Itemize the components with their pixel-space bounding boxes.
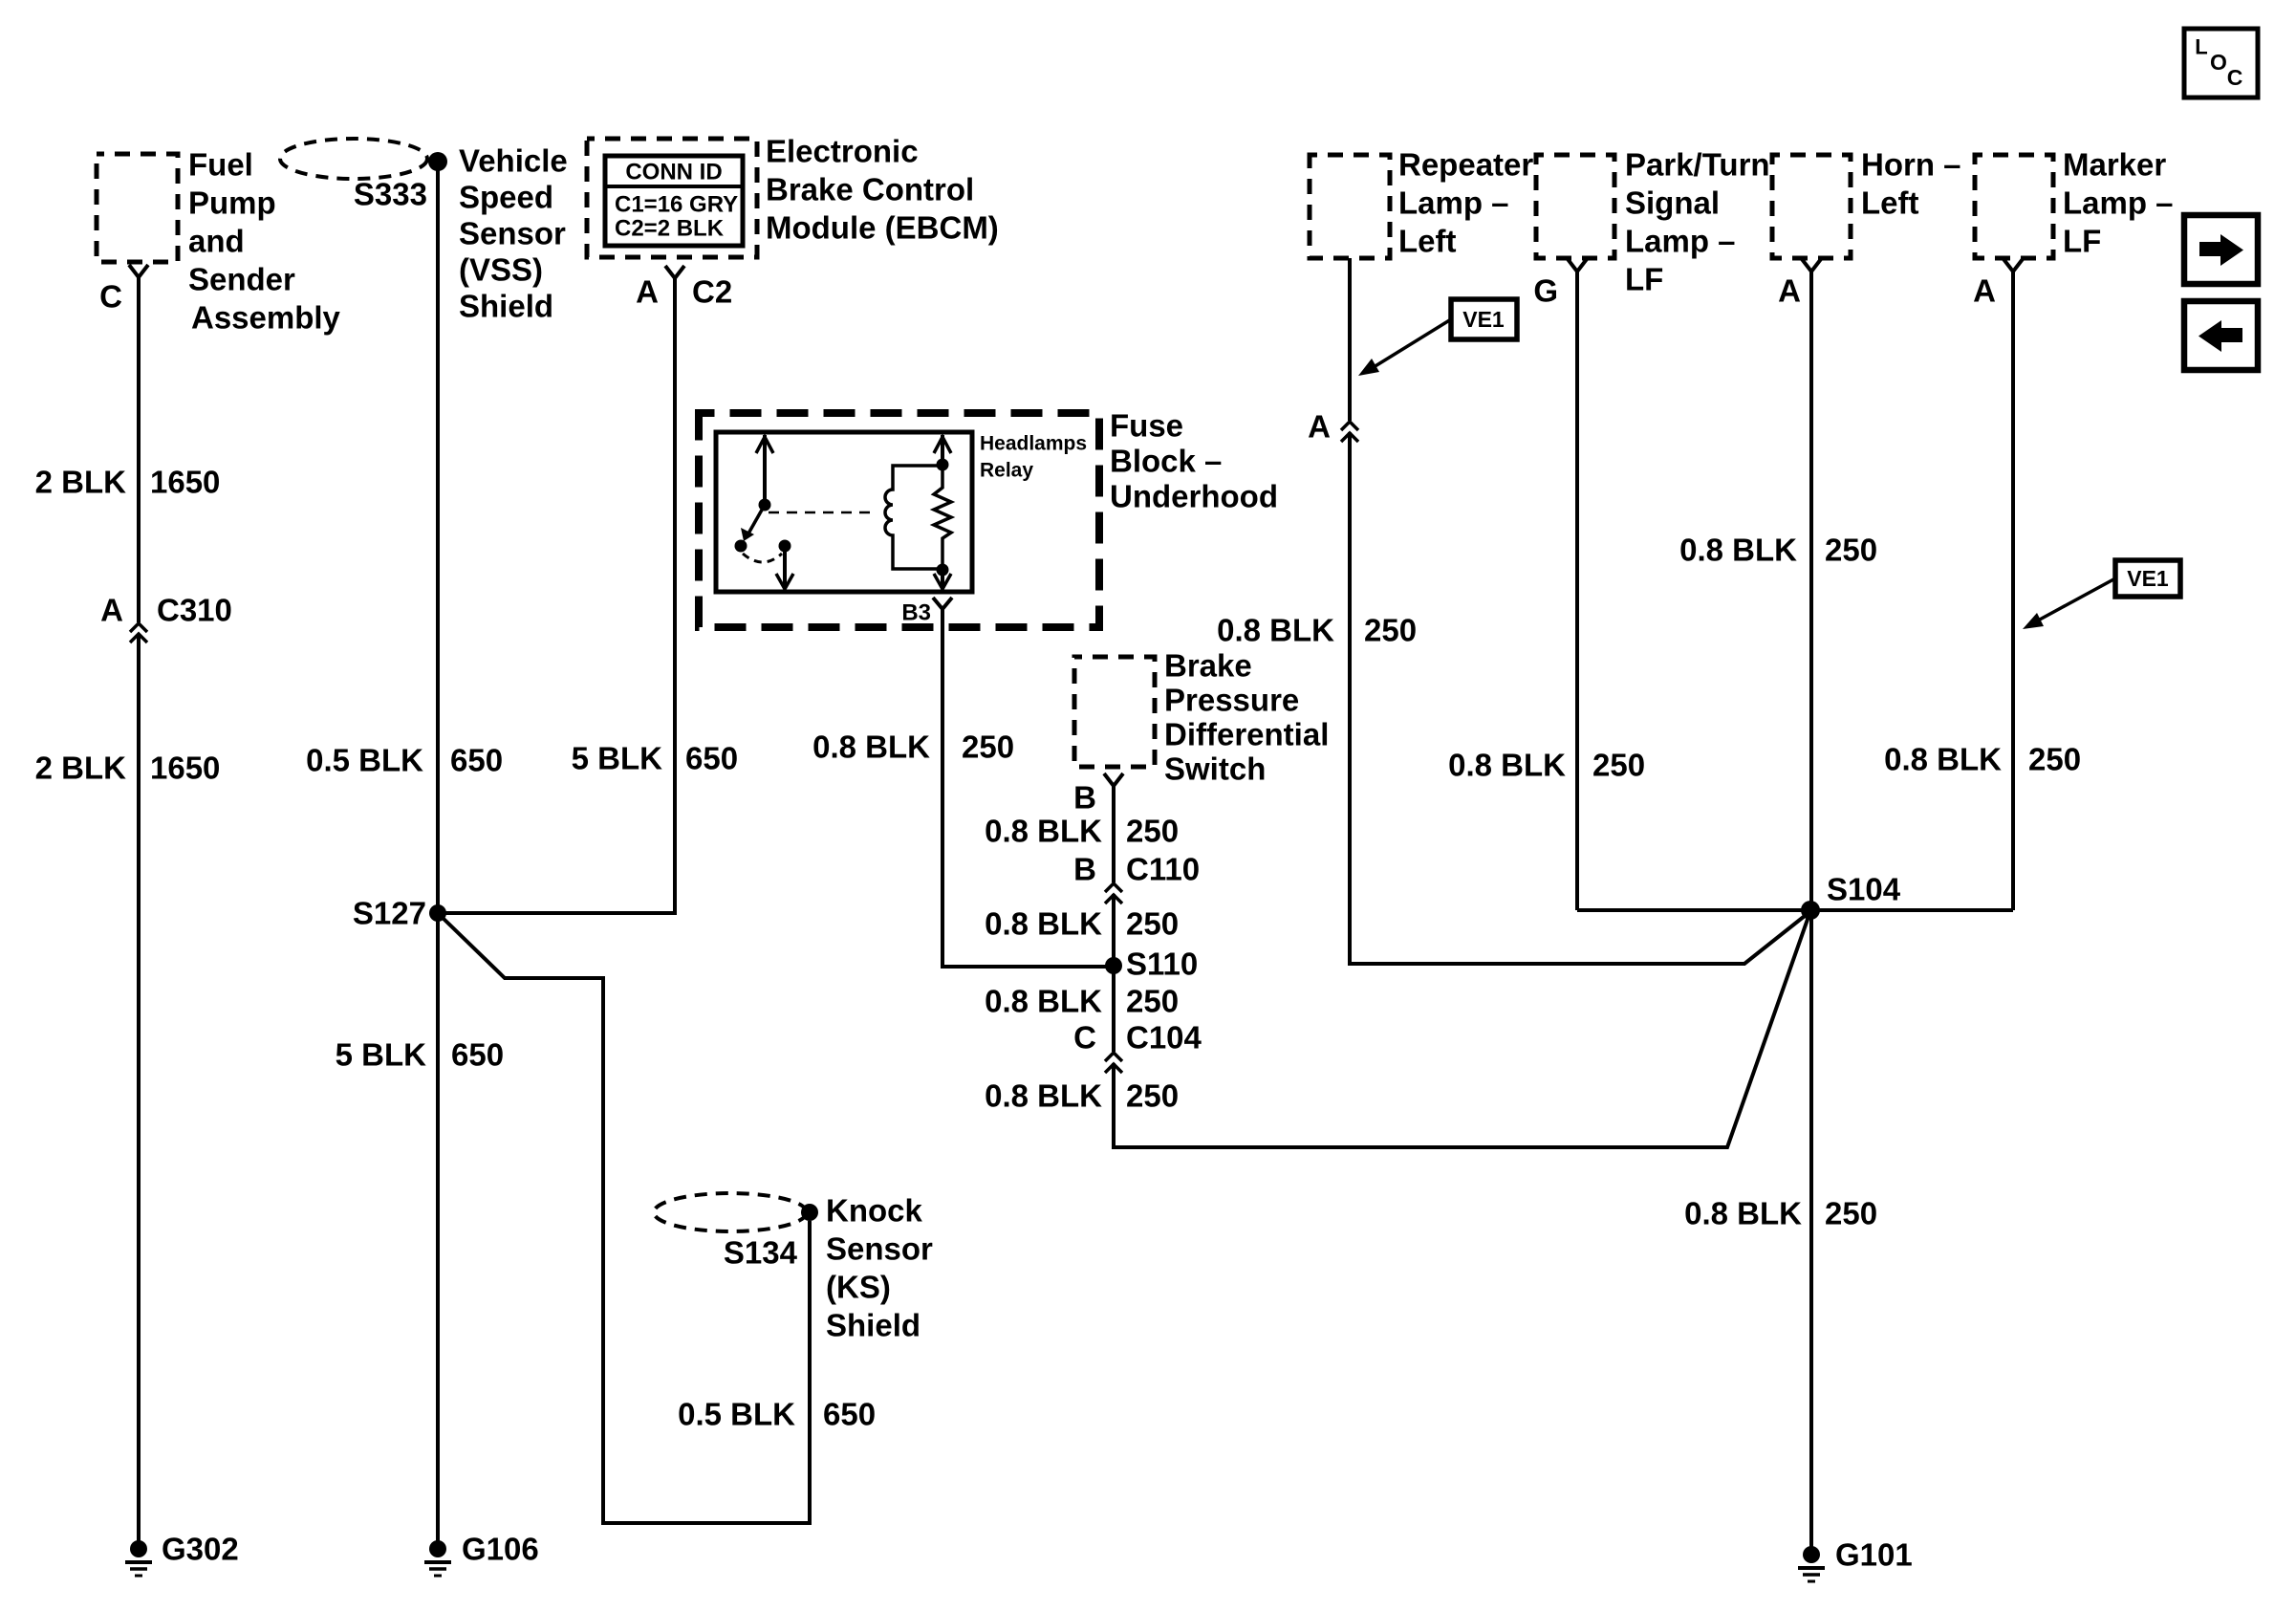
svg-text:0.5 BLK: 0.5 BLK [306,743,423,778]
svg-text:(VSS): (VSS) [459,252,543,288]
svg-text:250: 250 [1364,613,1417,648]
svg-text:C110: C110 [1126,852,1200,887]
svg-text:VE1: VE1 [2127,566,2169,591]
wire label 0.8 BLK 250 (below C104) [985,1078,1179,1114]
connector Y at fuse block pin B3 [933,598,952,609]
svg-text:250: 250 [1825,533,1877,568]
Brake Pressure Differential Switch label [1164,648,1329,787]
svg-text:S333: S333 [354,177,427,212]
svg-text:0.8 BLK: 0.8 BLK [1217,613,1334,648]
svg-text:Vehicle: Vehicle [459,143,568,179]
svg-text:S110: S110 [1126,947,1198,982]
svg-text:650: 650 [685,741,738,776]
Fuse Block - Underhood box [699,413,1099,627]
svg-text:A: A [100,593,123,628]
ground G302 [125,1540,152,1576]
svg-text:B: B [1073,780,1096,816]
svg-text:G: G [1533,273,1558,309]
page arrow box (left) [2184,301,2258,370]
svg-text:Horn –: Horn – [1861,147,1961,183]
svg-text:C310: C310 [157,593,232,628]
svg-text:1650: 1650 [150,751,220,786]
svg-text:C: C [99,279,122,315]
svg-text:250: 250 [1126,906,1179,942]
Vehicle Speed Sensor (VSS) Shield label [459,143,568,324]
wire label 0.8 BLK 250 (above S104) [1679,533,1877,568]
svg-text:Module (EBCM): Module (EBCM) [766,210,999,246]
svg-text:1650: 1650 [150,465,220,500]
svg-text:Sensor: Sensor [826,1231,933,1267]
relay coil output pin (arrow down) [934,570,951,589]
connector Y at horn pin A [1802,259,1821,272]
svg-text:0.8 BLK: 0.8 BLK [985,1078,1102,1114]
node S333 dot [428,152,447,171]
svg-text:Repeater: Repeater [1398,147,1533,183]
svg-text:250: 250 [1592,748,1645,783]
Marker Lamp - LF label [2063,147,2174,259]
svg-text:A: A [1973,273,1996,309]
connector Y at fuel pump pin C [129,265,148,277]
wire S333 to G106 [436,164,440,1542]
svg-text:A: A [1778,273,1801,309]
svg-text:CONN ID: CONN ID [625,160,722,185]
svg-text:5 BLK: 5 BLK [336,1037,427,1073]
wire label 0.5 BLK 650 [678,1397,876,1432]
svg-text:Left: Left [1398,224,1457,259]
wire repeater lamp to S104 [1348,258,1352,421]
svg-text:Relay: Relay [980,460,1033,482]
inline connector C110 (double chevron) [1105,883,1122,903]
svg-text:0.8 BLK: 0.8 BLK [812,729,930,765]
relay coil top junction dot [937,459,949,471]
svg-text:Signal: Signal [1625,185,1720,221]
svg-text:Fuse: Fuse [1110,408,1183,444]
wire park/turn lamp down [1575,270,1579,910]
wire EBCM to S127 [442,276,675,913]
relay switched output pin (arrow down) [776,546,793,589]
svg-text:0.8 BLK: 0.8 BLK [985,906,1102,942]
CONN ID table [605,156,743,246]
callout VE1 arrow to repeater wire [1358,319,1451,376]
svg-text:G106: G106 [462,1532,539,1567]
svg-text:Underhood: Underhood [1110,479,1278,514]
Park/Turn Signal Lamp - LF label [1625,147,1770,297]
Repeater Lamp - Left component box [1310,155,1390,258]
relay switch pivot dot [759,499,771,512]
callout VE1 box (lower) [2115,560,2180,597]
svg-text:A: A [636,274,659,310]
svg-text:250: 250 [1126,1078,1179,1114]
Repeater Lamp - Left label [1398,147,1533,259]
callout VE1 arrow to marker wire [2023,578,2115,629]
page arrow box (right) [2184,215,2258,284]
svg-text:2 BLK: 2 BLK [35,465,127,500]
connector Y at marker lamp pin A [2004,259,2023,272]
wire S127 to knock sensor shield branch [441,916,810,1523]
svg-text:Electronic: Electronic [766,134,919,169]
svg-text:C104: C104 [1126,1020,1202,1056]
splice S104 dot [1801,901,1820,920]
relay contact dashed arc [743,554,782,562]
relay coil control dashed link [769,512,877,514]
pin B / C110 labels [1073,852,1200,887]
relay coil supply pin (arrow up) [934,435,951,465]
svg-text:Headlamps: Headlamps [980,433,1087,455]
splice S127 dot [429,904,446,922]
wire horn to G101 [1809,270,1813,1548]
svg-text:Pressure: Pressure [1164,683,1299,718]
EBCM label [766,134,999,246]
svg-text:Brake: Brake [1164,648,1252,684]
connector Y at brake switch pin B [1104,773,1123,786]
relay switch arm with arrowhead [741,505,765,541]
svg-text:Brake Control: Brake Control [766,172,974,207]
wire label 0.5 BLK 650 [306,743,503,778]
LOC legend box [2184,29,2258,98]
wire label 0.8 BLK 250 (above C110) [985,814,1179,849]
svg-text:Lamp –: Lamp – [1625,224,1736,259]
svg-text:Sensor: Sensor [459,216,566,251]
svg-text:S127: S127 [353,896,426,931]
svg-text:250: 250 [1126,984,1179,1019]
wire label 0.8 BLK 250 [1884,742,2081,777]
svg-text:650: 650 [450,743,503,778]
svg-text:5 BLK: 5 BLK [572,741,663,776]
Headlamps Relay label [980,433,1087,482]
svg-text:S134: S134 [724,1235,798,1271]
svg-text:Differential: Differential [1164,717,1329,752]
svg-text:C: C [1073,1020,1096,1056]
svg-text:Park/Turn: Park/Turn [1625,147,1770,183]
relay coil bottom junction dot [937,564,949,577]
wire label 5 BLK 650 [336,1037,504,1073]
splice S110 dot [1105,957,1122,974]
svg-text:250: 250 [1126,814,1179,849]
wire label 2 BLK 1650 (lower) [35,751,221,786]
pin A / C310 labels [100,593,232,628]
svg-text:C1=16 GRY: C1=16 GRY [615,192,738,218]
svg-text:Speed: Speed [459,180,553,215]
wire fuse block B3 to S110 [942,607,1114,967]
svg-text:LF: LF [2063,224,2101,259]
inline connector (double chevron) on repeater wire [1341,422,1358,442]
relay switch common pin (arrow up) [756,435,773,505]
Fuse Block - Underhood label [1110,408,1278,514]
svg-text:Lamp –: Lamp – [1398,185,1509,221]
svg-text:2 BLK: 2 BLK [35,751,127,786]
wire marker lamp to S104 [2011,270,2015,910]
Knock Sensor (KS) Shield label [826,1193,933,1343]
svg-text:250: 250 [2028,742,2081,777]
svg-text:250: 250 [1825,1196,1877,1231]
Electronic Brake Control Module (EBCM) component box [587,139,757,257]
svg-text:C2=2 BLK: C2=2 BLK [615,216,725,242]
pin C / C104 labels [1073,1020,1202,1056]
svg-text:and: and [188,224,245,259]
svg-text:250: 250 [962,729,1014,765]
svg-text:(KS): (KS) [826,1270,891,1305]
svg-text:L: L [2195,35,2207,59]
svg-text:Shield: Shield [459,289,553,324]
svg-text:B3: B3 [901,600,931,626]
svg-text:0.8 BLK: 0.8 BLK [985,814,1102,849]
svg-text:Pump: Pump [188,185,276,221]
wire fuel pump to G302 [137,275,141,622]
svg-text:O: O [2210,50,2227,75]
relay contact dots [735,540,747,553]
Park/Turn Signal Lamp - LF component box [1536,155,1614,258]
relay suppression resistor zigzag [934,466,951,569]
svg-text:B: B [1073,852,1096,887]
Fuel Pump and Sender Assembly component box [97,154,178,262]
svg-text:LF: LF [1625,262,1663,297]
svg-text:0.8 BLK: 0.8 BLK [985,984,1102,1019]
ground G106 [424,1540,451,1576]
splice shield ellipse S333 [280,139,427,179]
connector Y at park/turn pin G [1568,259,1587,272]
svg-text:Assembly: Assembly [191,300,341,336]
Brake Pressure Differential Switch component box [1074,657,1155,767]
svg-text:G302: G302 [162,1532,239,1567]
inline connector C104 (double chevron) [1105,1053,1122,1073]
Fuel Pump and Sender Assembly label [188,147,341,336]
svg-text:0.8 BLK: 0.8 BLK [1679,533,1797,568]
wire label 0.8 BLK 250 (below S104) [1684,1196,1877,1231]
ground G101 [1798,1546,1825,1581]
wire label 2 BLK 1650 (upper) [35,465,221,500]
svg-text:VE1: VE1 [1462,307,1505,332]
pin A / C2 labels [636,274,732,310]
svg-text:Knock: Knock [826,1193,923,1229]
wire label 0.8 BLK 250 [1448,748,1645,783]
svg-text:C: C [2227,65,2243,90]
svg-text:Left: Left [1861,185,1919,221]
svg-text:0.8 BLK: 0.8 BLK [1448,748,1566,783]
svg-text:Fuel: Fuel [188,147,253,183]
splice shield ellipse S134 [654,1193,807,1231]
relay coil (inductor loop) [885,466,942,569]
wire brake switch to S104 [1112,784,1116,882]
inline connector C310 (double chevron) [130,623,147,642]
Horn - Left component box [1772,155,1851,258]
svg-text:Block –: Block – [1110,444,1222,479]
svg-text:Switch: Switch [1164,751,1266,787]
svg-text:Lamp –: Lamp – [2063,185,2174,221]
svg-text:0.5 BLK: 0.5 BLK [678,1397,795,1432]
wire S104 horizontal bus [1577,908,2013,912]
svg-text:650: 650 [823,1397,876,1432]
node S134 dot [801,1204,818,1221]
Horn - Left label [1861,147,1961,221]
Headlamps Relay box [716,432,972,592]
callout VE1 box (upper) [1451,299,1517,339]
wire label 0.8 BLK 250 [812,729,1014,765]
wire label 5 BLK 650 [572,741,738,776]
Marker Lamp - LF component box [1975,155,2053,258]
wire label 0.8 BLK 250 (above S110) [985,906,1179,942]
svg-text:Shield: Shield [826,1308,921,1343]
svg-text:650: 650 [451,1037,504,1073]
svg-text:Sender: Sender [188,262,295,297]
svg-text:A: A [1308,409,1331,445]
svg-text:Marker: Marker [2063,147,2166,183]
wire label 0.8 BLK 250 [1217,613,1417,648]
svg-text:0.8 BLK: 0.8 BLK [1684,1196,1802,1231]
svg-text:C2: C2 [692,274,732,310]
svg-text:G101: G101 [1835,1537,1913,1573]
svg-text:S104: S104 [1827,872,1901,907]
svg-text:0.8 BLK: 0.8 BLK [1884,742,2002,777]
wire label 0.8 BLK 250 (below S110) [985,984,1179,1019]
connector Y at EBCM pin A C2 [665,266,684,278]
